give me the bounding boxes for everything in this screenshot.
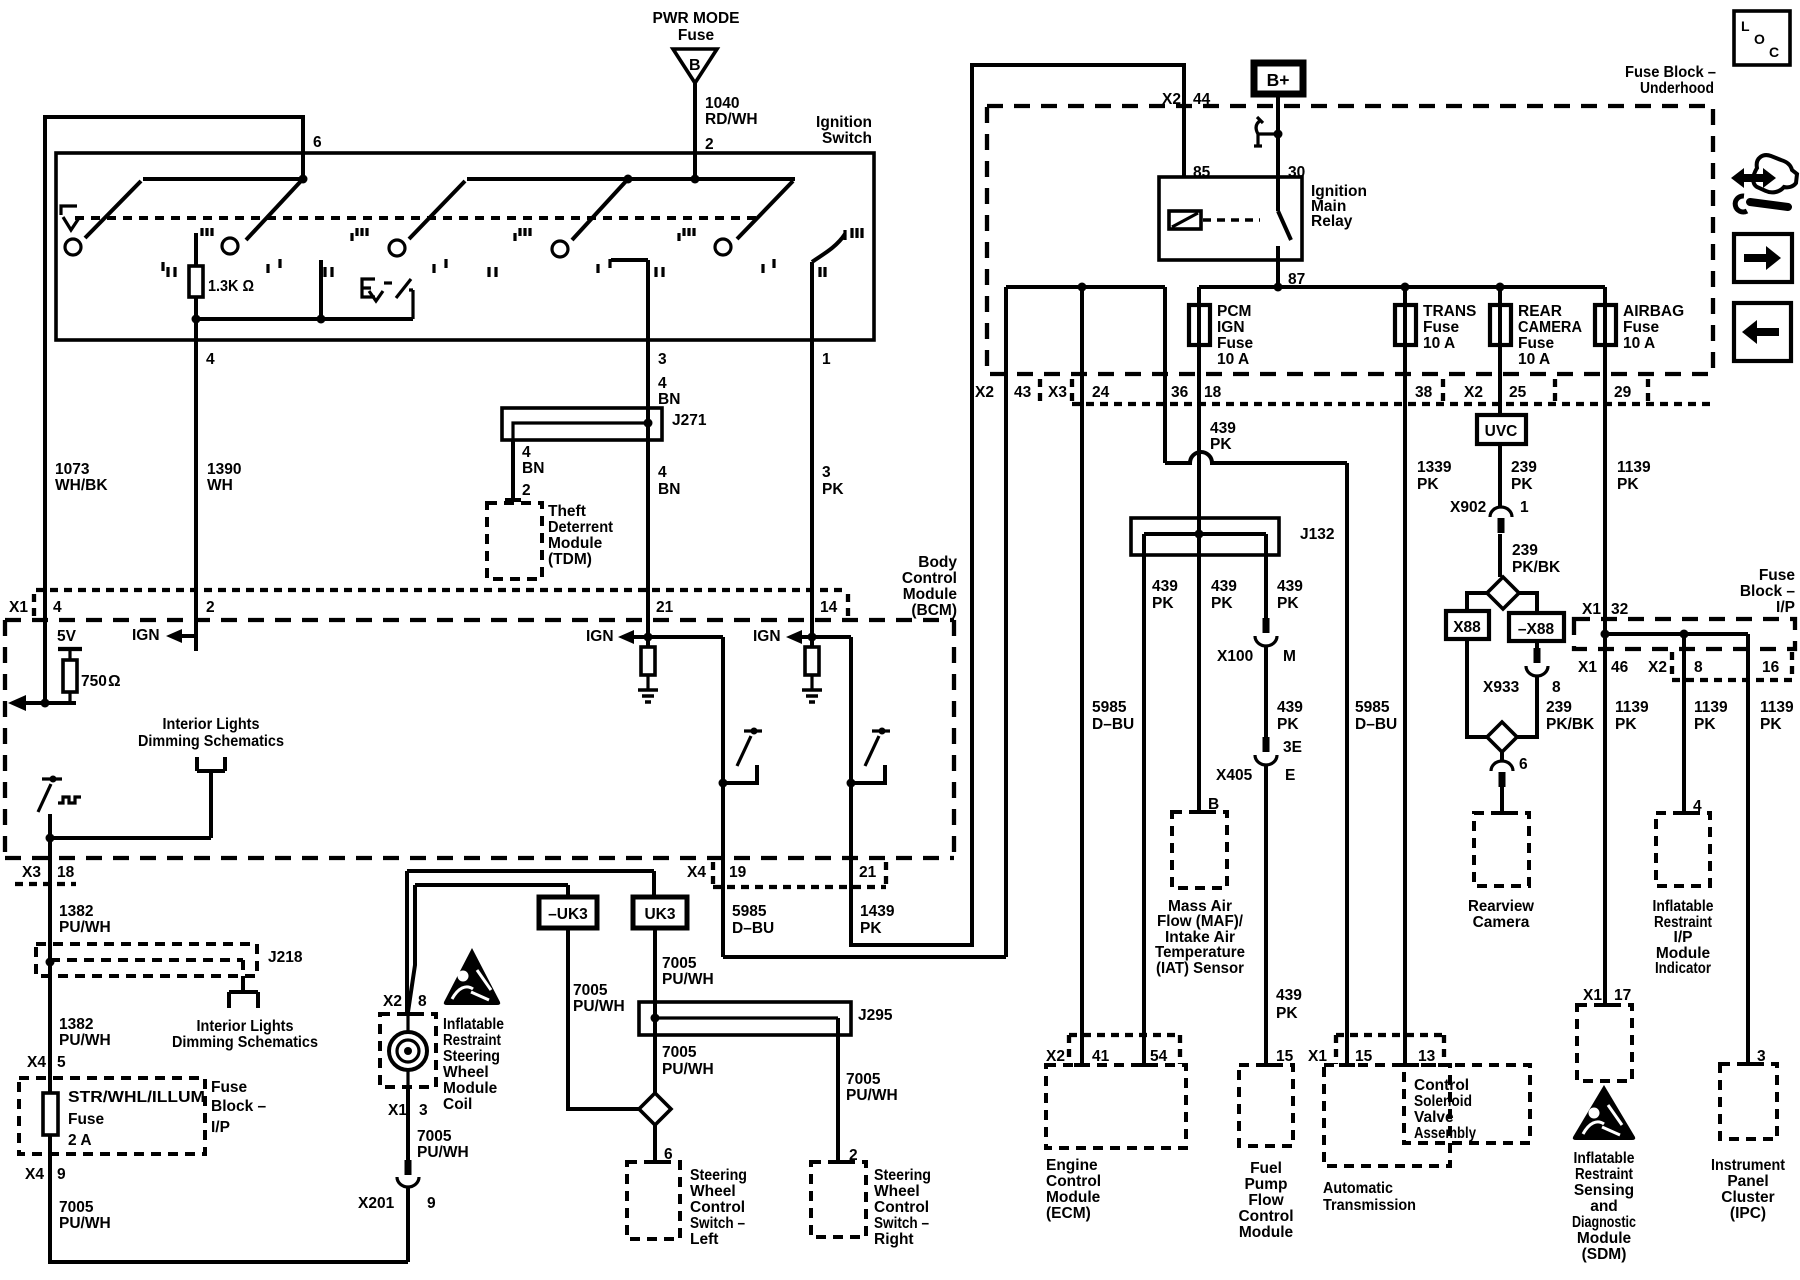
svg-text:Block –: Block – bbox=[1740, 583, 1796, 600]
svg-text:X2: X2 bbox=[1648, 659, 1667, 676]
svg-text:CAMERA: CAMERA bbox=[1518, 319, 1582, 336]
svg-text:X2: X2 bbox=[1464, 384, 1483, 401]
svg-text:I/P: I/P bbox=[1674, 929, 1693, 946]
svg-text:Module: Module bbox=[1239, 1224, 1294, 1241]
svg-text:Body: Body bbox=[918, 554, 957, 571]
svg-text:Module: Module bbox=[903, 586, 958, 603]
svg-text:4: 4 bbox=[206, 351, 215, 368]
svg-text:(SDM): (SDM) bbox=[1582, 1246, 1627, 1263]
svg-text:1382: 1382 bbox=[59, 903, 93, 920]
svg-text:PK: PK bbox=[1152, 595, 1174, 612]
svg-text:RD/WH: RD/WH bbox=[705, 111, 758, 128]
svg-text:Steering: Steering bbox=[690, 1167, 747, 1184]
svg-text:439: 439 bbox=[1210, 420, 1236, 437]
svg-text:PU/WH: PU/WH bbox=[662, 1061, 714, 1078]
svg-text:PK: PK bbox=[1694, 716, 1716, 733]
svg-text:Fuse: Fuse bbox=[211, 1079, 248, 1096]
svg-text:7005: 7005 bbox=[846, 1071, 881, 1088]
svg-text:PU/WH: PU/WH bbox=[59, 919, 111, 936]
svg-text:X405: X405 bbox=[1216, 767, 1253, 784]
svg-text:Fuel: Fuel bbox=[1250, 1160, 1282, 1177]
svg-text:PK/BK: PK/BK bbox=[1512, 559, 1561, 576]
svg-text:15: 15 bbox=[1276, 1048, 1294, 1065]
svg-text:PU/WH: PU/WH bbox=[573, 998, 625, 1015]
svg-text:PK: PK bbox=[1276, 1005, 1298, 1022]
svg-text:X933: X933 bbox=[1483, 679, 1520, 696]
svg-text:Steering: Steering bbox=[443, 1048, 500, 1065]
svg-text:REAR: REAR bbox=[1518, 303, 1562, 320]
svg-text:X1: X1 bbox=[1582, 601, 1601, 618]
svg-text:Control: Control bbox=[1414, 1077, 1469, 1094]
svg-text:Fuse: Fuse bbox=[1623, 319, 1660, 336]
svg-text:Rearview: Rearview bbox=[1468, 898, 1535, 915]
svg-text:PK: PK bbox=[1211, 595, 1233, 612]
svg-text:9: 9 bbox=[57, 1166, 66, 1183]
svg-text:Camera: Camera bbox=[1473, 914, 1530, 931]
svg-text:PK: PK bbox=[1511, 476, 1533, 493]
svg-text:BN: BN bbox=[658, 481, 680, 498]
svg-text:1: 1 bbox=[1520, 499, 1529, 516]
svg-text:Cluster: Cluster bbox=[1721, 1189, 1774, 1206]
svg-text:E: E bbox=[1285, 767, 1295, 784]
svg-text:PK: PK bbox=[1277, 716, 1299, 733]
svg-text:2: 2 bbox=[522, 482, 531, 499]
svg-text:X88: X88 bbox=[1453, 619, 1481, 636]
svg-text:–X88: –X88 bbox=[1518, 621, 1555, 638]
svg-text:439: 439 bbox=[1276, 987, 1302, 1004]
svg-text:2 A: 2 A bbox=[68, 1132, 92, 1149]
svg-text:L: L bbox=[1741, 18, 1750, 34]
svg-text:Inflatable: Inflatable bbox=[1653, 898, 1714, 915]
svg-text:Flow (MAF)/: Flow (MAF)/ bbox=[1157, 913, 1244, 930]
svg-text:3: 3 bbox=[658, 351, 667, 368]
svg-text:18: 18 bbox=[57, 864, 75, 881]
svg-text:Wheel: Wheel bbox=[874, 1183, 920, 1200]
svg-text:Solenoid: Solenoid bbox=[1414, 1093, 1472, 1110]
svg-text:439: 439 bbox=[1152, 578, 1178, 595]
svg-text:Module: Module bbox=[548, 535, 603, 552]
svg-text:Fuse: Fuse bbox=[678, 27, 715, 44]
svg-text:J271: J271 bbox=[672, 412, 707, 429]
svg-text:PK: PK bbox=[1615, 716, 1637, 733]
svg-text:X3: X3 bbox=[1048, 384, 1067, 401]
svg-text:PK/BK: PK/BK bbox=[1546, 716, 1595, 733]
svg-text:5985: 5985 bbox=[732, 903, 767, 920]
svg-text:IGN: IGN bbox=[132, 627, 160, 644]
svg-text:4: 4 bbox=[658, 464, 667, 481]
svg-text:Control: Control bbox=[902, 570, 957, 587]
svg-text:1073: 1073 bbox=[55, 461, 90, 478]
svg-text:6: 6 bbox=[1519, 756, 1528, 773]
svg-text:Coil: Coil bbox=[443, 1096, 472, 1113]
svg-text:X1: X1 bbox=[1308, 1048, 1327, 1065]
svg-text:Switch –: Switch – bbox=[690, 1215, 745, 1232]
svg-text:7005: 7005 bbox=[417, 1128, 452, 1145]
svg-text:7005: 7005 bbox=[59, 1199, 94, 1216]
svg-text:4: 4 bbox=[658, 375, 667, 392]
svg-text:8: 8 bbox=[1694, 659, 1703, 676]
svg-text:1139: 1139 bbox=[1617, 459, 1651, 476]
svg-text:X1: X1 bbox=[388, 1102, 407, 1119]
svg-text:–UK3: –UK3 bbox=[548, 906, 588, 923]
svg-text:X201: X201 bbox=[358, 1195, 395, 1212]
svg-text:38: 38 bbox=[1415, 384, 1433, 401]
svg-text:PU/WH: PU/WH bbox=[662, 971, 714, 988]
svg-text:Panel: Panel bbox=[1727, 1173, 1768, 1190]
svg-text:UK3: UK3 bbox=[644, 906, 675, 923]
svg-text:5: 5 bbox=[57, 1054, 66, 1071]
svg-text:B+: B+ bbox=[1267, 70, 1290, 90]
svg-text:1.3K Ω: 1.3K Ω bbox=[208, 278, 254, 295]
svg-text:2: 2 bbox=[705, 136, 714, 153]
svg-text:Fuse Block –: Fuse Block – bbox=[1625, 64, 1716, 81]
svg-text:X4: X4 bbox=[27, 1054, 46, 1071]
svg-text:AIRBAG: AIRBAG bbox=[1623, 303, 1684, 320]
svg-text:19: 19 bbox=[729, 864, 747, 881]
svg-text:O: O bbox=[1754, 31, 1765, 47]
svg-text:3E: 3E bbox=[1283, 739, 1302, 756]
svg-text:Fuse: Fuse bbox=[1217, 335, 1254, 352]
svg-text:Valve: Valve bbox=[1414, 1109, 1454, 1126]
svg-text:10 A: 10 A bbox=[1518, 351, 1550, 368]
svg-text:Theft: Theft bbox=[548, 503, 586, 520]
svg-text:5985: 5985 bbox=[1092, 699, 1127, 716]
svg-text:5V: 5V bbox=[57, 628, 77, 645]
svg-text:Relay: Relay bbox=[1311, 213, 1353, 230]
svg-text:Temperature: Temperature bbox=[1155, 944, 1245, 961]
svg-text:750 Ω: 750 Ω bbox=[81, 673, 121, 690]
svg-text:and: and bbox=[1590, 1198, 1618, 1215]
svg-text:Transmission: Transmission bbox=[1323, 1197, 1416, 1214]
svg-text:PU/WH: PU/WH bbox=[59, 1215, 111, 1232]
svg-text:D–BU: D–BU bbox=[732, 920, 774, 937]
svg-text:8: 8 bbox=[1552, 679, 1561, 696]
svg-text:M: M bbox=[1283, 648, 1296, 665]
svg-text:41: 41 bbox=[1092, 1048, 1110, 1065]
svg-text:PK: PK bbox=[1760, 716, 1782, 733]
svg-text:Interior Lights: Interior Lights bbox=[163, 716, 260, 733]
svg-text:1390: 1390 bbox=[207, 461, 241, 478]
svg-text:PU/WH: PU/WH bbox=[59, 1032, 111, 1049]
svg-text:IGN: IGN bbox=[586, 628, 614, 645]
svg-text:X2: X2 bbox=[1162, 91, 1181, 108]
svg-text:1382: 1382 bbox=[59, 1016, 93, 1033]
svg-text:Wheel: Wheel bbox=[443, 1064, 489, 1081]
svg-text:21: 21 bbox=[656, 599, 674, 616]
svg-text:Fuse: Fuse bbox=[1518, 335, 1555, 352]
svg-text:WH: WH bbox=[207, 477, 233, 494]
svg-text:4: 4 bbox=[522, 444, 531, 461]
svg-text:Restraint: Restraint bbox=[1575, 1166, 1633, 1183]
svg-text:Inflatable: Inflatable bbox=[443, 1016, 504, 1033]
svg-text:8: 8 bbox=[418, 993, 427, 1010]
svg-text:D–BU: D–BU bbox=[1092, 716, 1134, 733]
svg-text:1040: 1040 bbox=[705, 95, 739, 112]
svg-text:J295: J295 bbox=[858, 1007, 893, 1024]
svg-text:D–BU: D–BU bbox=[1355, 716, 1397, 733]
svg-text:3: 3 bbox=[822, 464, 831, 481]
svg-text:Control: Control bbox=[690, 1199, 745, 1216]
svg-text:1139: 1139 bbox=[1760, 699, 1794, 716]
svg-text:1139: 1139 bbox=[1615, 699, 1649, 716]
svg-text:X2: X2 bbox=[383, 993, 402, 1010]
svg-text:439: 439 bbox=[1277, 578, 1303, 595]
svg-text:Diagnostic: Diagnostic bbox=[1572, 1214, 1636, 1231]
svg-text:Module: Module bbox=[1046, 1189, 1101, 1206]
svg-text:Control: Control bbox=[1046, 1173, 1101, 1190]
svg-text:PK: PK bbox=[1277, 595, 1299, 612]
svg-text:Sensing: Sensing bbox=[1574, 1182, 1634, 1199]
svg-text:10 A: 10 A bbox=[1423, 335, 1455, 352]
svg-text:PK: PK bbox=[1417, 476, 1439, 493]
svg-text:PK: PK bbox=[1210, 436, 1232, 453]
svg-text:1: 1 bbox=[822, 351, 831, 368]
svg-text:Left: Left bbox=[690, 1231, 718, 1248]
svg-text:WH/BK: WH/BK bbox=[55, 477, 108, 494]
svg-text:13: 13 bbox=[1418, 1048, 1436, 1065]
svg-text:Control: Control bbox=[874, 1199, 929, 1216]
svg-text:29: 29 bbox=[1614, 384, 1632, 401]
svg-text:Pump: Pump bbox=[1244, 1176, 1287, 1193]
svg-text:18: 18 bbox=[1204, 384, 1222, 401]
svg-text:Right: Right bbox=[874, 1231, 914, 1248]
svg-text:1439: 1439 bbox=[860, 903, 895, 920]
svg-text:Switch: Switch bbox=[822, 130, 872, 147]
svg-text:Flow: Flow bbox=[1248, 1192, 1284, 1209]
svg-text:Control: Control bbox=[1238, 1208, 1293, 1225]
svg-text:(TDM): (TDM) bbox=[548, 551, 592, 568]
svg-text:Inflatable: Inflatable bbox=[1574, 1150, 1635, 1167]
svg-text:X4: X4 bbox=[687, 864, 706, 881]
svg-text:X3: X3 bbox=[22, 864, 41, 881]
svg-text:Indicator: Indicator bbox=[1655, 960, 1711, 977]
svg-text:BN: BN bbox=[658, 391, 680, 408]
svg-text:43: 43 bbox=[1014, 384, 1032, 401]
svg-text:239: 239 bbox=[1546, 699, 1572, 716]
svg-text:C: C bbox=[1769, 44, 1779, 60]
svg-text:Restraint: Restraint bbox=[443, 1032, 501, 1049]
svg-text:439: 439 bbox=[1277, 699, 1303, 716]
svg-text:Underhood: Underhood bbox=[1640, 80, 1714, 97]
svg-text:7005: 7005 bbox=[662, 955, 697, 972]
svg-text:21: 21 bbox=[859, 864, 877, 881]
svg-text:J132: J132 bbox=[1300, 526, 1334, 543]
svg-text:Fuse: Fuse bbox=[1423, 319, 1460, 336]
svg-text:Deterrent: Deterrent bbox=[548, 519, 613, 536]
svg-text:Module: Module bbox=[443, 1080, 498, 1097]
svg-text:BN: BN bbox=[522, 460, 544, 477]
svg-text:Module: Module bbox=[1577, 1230, 1632, 1247]
svg-text:(IAT) Sensor: (IAT) Sensor bbox=[1156, 960, 1244, 977]
svg-text:IGN: IGN bbox=[1217, 319, 1245, 336]
svg-text:X2: X2 bbox=[975, 384, 994, 401]
svg-text:X1: X1 bbox=[1583, 987, 1602, 1004]
svg-text:IGN: IGN bbox=[753, 628, 781, 645]
svg-text:Ignition: Ignition bbox=[816, 114, 872, 131]
svg-text:15: 15 bbox=[1355, 1048, 1373, 1065]
svg-text:Fuse: Fuse bbox=[68, 1111, 105, 1128]
svg-text:PU/WH: PU/WH bbox=[846, 1087, 898, 1104]
svg-text:1139: 1139 bbox=[1694, 699, 1728, 716]
svg-text:Engine: Engine bbox=[1046, 1157, 1098, 1174]
svg-text:X2: X2 bbox=[1046, 1048, 1065, 1065]
svg-text:Fuse: Fuse bbox=[1759, 567, 1796, 584]
svg-text:17: 17 bbox=[1614, 987, 1631, 1004]
svg-text:2: 2 bbox=[206, 599, 215, 616]
svg-text:Switch –: Switch – bbox=[874, 1215, 929, 1232]
svg-text:6: 6 bbox=[313, 134, 322, 151]
svg-text:(BCM): (BCM) bbox=[911, 602, 957, 619]
svg-text:PU/WH: PU/WH bbox=[417, 1144, 469, 1161]
svg-text:25: 25 bbox=[1509, 384, 1527, 401]
svg-text:X100: X100 bbox=[1217, 648, 1253, 665]
svg-text:1339: 1339 bbox=[1417, 459, 1452, 476]
svg-text:44: 44 bbox=[1193, 91, 1211, 108]
svg-text:X902: X902 bbox=[1450, 499, 1486, 516]
svg-text:16: 16 bbox=[1762, 659, 1780, 676]
svg-text:PCM: PCM bbox=[1217, 303, 1251, 320]
svg-text:Steering: Steering bbox=[874, 1167, 931, 1184]
svg-text:5985: 5985 bbox=[1355, 699, 1390, 716]
svg-text:(ECM): (ECM) bbox=[1046, 1205, 1091, 1222]
svg-text:X4: X4 bbox=[25, 1166, 44, 1183]
svg-text:10 A: 10 A bbox=[1217, 351, 1249, 368]
svg-text:(IPC): (IPC) bbox=[1730, 1205, 1766, 1222]
svg-text:239: 239 bbox=[1511, 459, 1537, 476]
svg-text:PK: PK bbox=[860, 920, 882, 937]
svg-text:Dimming Schematics: Dimming Schematics bbox=[138, 733, 284, 750]
svg-text:PK: PK bbox=[822, 481, 844, 498]
svg-text:36: 36 bbox=[1171, 384, 1189, 401]
svg-text:Wheel: Wheel bbox=[690, 1183, 736, 1200]
svg-text:9: 9 bbox=[427, 1195, 436, 1212]
svg-text:Block –: Block – bbox=[211, 1098, 267, 1115]
svg-text:UVC: UVC bbox=[1485, 423, 1518, 440]
svg-text:Interior Lights: Interior Lights bbox=[197, 1018, 294, 1035]
svg-text:4: 4 bbox=[53, 599, 62, 616]
svg-text:Instrument: Instrument bbox=[1711, 1157, 1785, 1174]
svg-text:B: B bbox=[689, 57, 701, 74]
svg-text:14: 14 bbox=[820, 599, 838, 616]
svg-text:Assembly: Assembly bbox=[1414, 1125, 1476, 1142]
svg-text:7005: 7005 bbox=[662, 1044, 697, 1061]
svg-text:PK: PK bbox=[1617, 476, 1639, 493]
svg-text:Automatic: Automatic bbox=[1323, 1180, 1393, 1197]
svg-text:54: 54 bbox=[1150, 1048, 1168, 1065]
svg-text:7005: 7005 bbox=[573, 982, 608, 999]
svg-text:Dimming Schematics: Dimming Schematics bbox=[172, 1034, 318, 1051]
svg-text:32: 32 bbox=[1611, 601, 1628, 618]
svg-text:10 A: 10 A bbox=[1623, 335, 1655, 352]
svg-text:46: 46 bbox=[1611, 659, 1629, 676]
svg-text:239: 239 bbox=[1512, 542, 1538, 559]
svg-text:X1: X1 bbox=[9, 599, 28, 616]
svg-text:439: 439 bbox=[1211, 578, 1237, 595]
svg-text:I/P: I/P bbox=[1776, 599, 1795, 616]
svg-text:I/P: I/P bbox=[211, 1119, 230, 1136]
svg-text:3: 3 bbox=[419, 1102, 428, 1119]
svg-text:STR/WHL/ILLUM: STR/WHL/ILLUM bbox=[68, 1089, 205, 1106]
svg-text:TRANS: TRANS bbox=[1423, 303, 1476, 320]
svg-text:24: 24 bbox=[1092, 384, 1110, 401]
svg-text:X1: X1 bbox=[1578, 659, 1597, 676]
svg-text:J218: J218 bbox=[268, 949, 303, 966]
svg-text:PWR MODE: PWR MODE bbox=[653, 10, 740, 27]
